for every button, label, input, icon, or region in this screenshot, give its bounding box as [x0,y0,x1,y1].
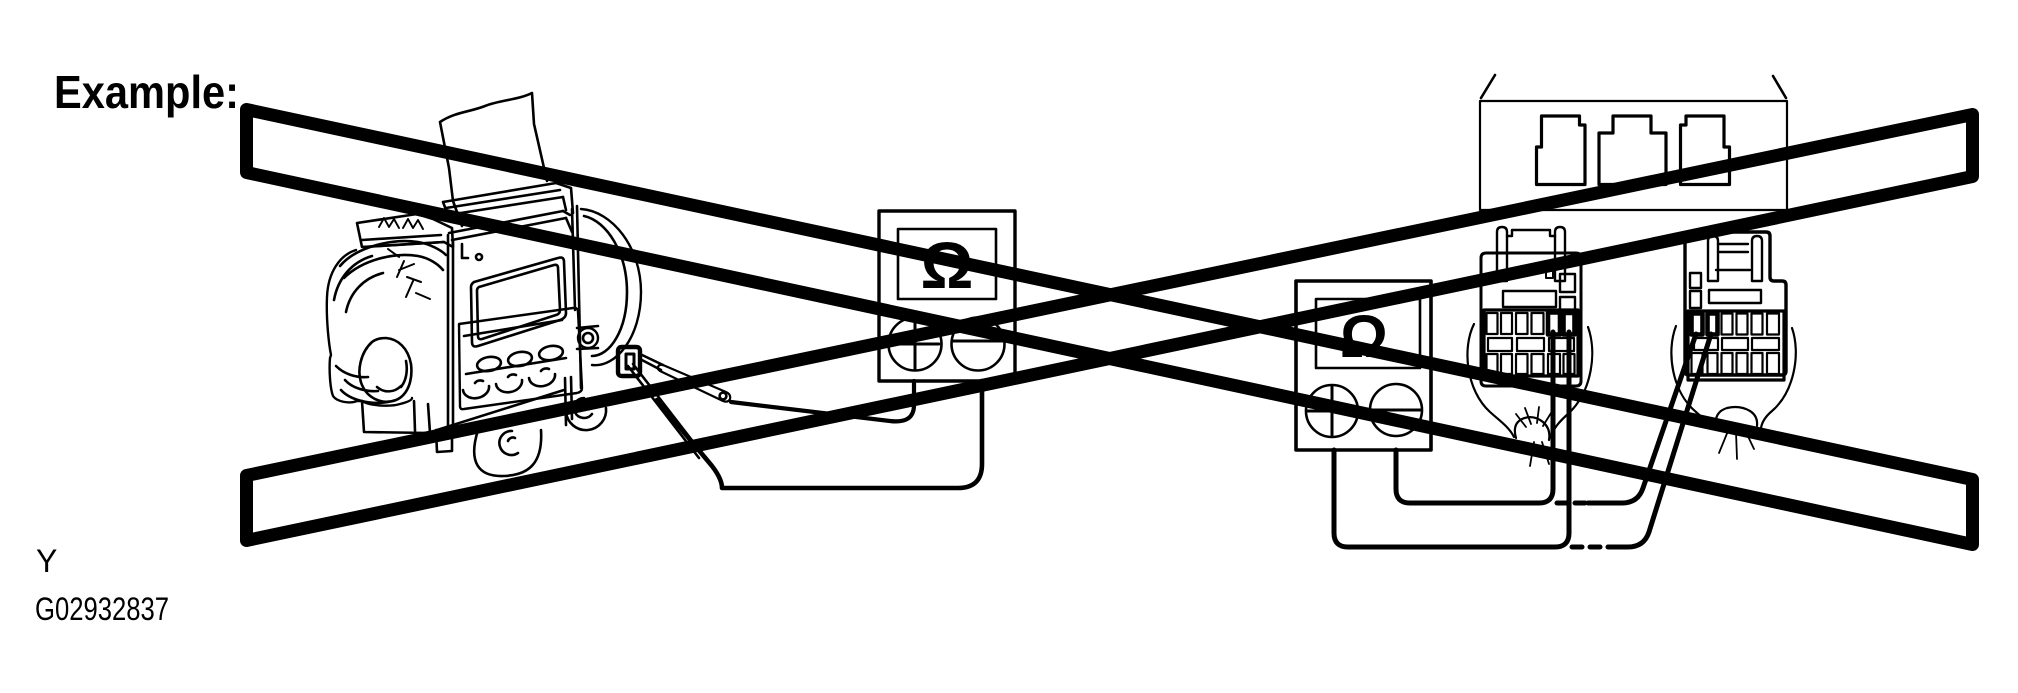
motor dome rim arc [344,255,443,278]
right foot circle [566,408,606,430]
probe 1 handle tip circle [720,393,727,400]
ohmmeter U1 positive terminal [889,318,942,371]
svg-text:G02932837: G02932837 [35,591,169,627]
motor dome outline [327,250,412,406]
dashed wire segment to connector B pin 2 [1557,501,1588,506]
connector B body [1685,232,1786,375]
connector B pin row 2 [1694,338,1718,350]
connector A pin row 2 [1488,338,1512,351]
foot blob curl [499,431,518,455]
body face right edge [572,206,581,388]
paper bottom hidden edge [453,201,462,226]
wire from U2 positive terminal to connector A pin 6 [1334,332,1569,547]
probe 1 handle [658,365,730,402]
ohmmeter U2 positive terminal [1306,385,1358,437]
cap zigzag mark [379,218,423,229]
connector A pin grid frame [1484,310,1578,376]
connector B side cell 1 [1690,273,1701,288]
connector B harness whiskers [1719,428,1764,459]
body face bottom edge [437,377,572,430]
connector A pin 5 (probed) [1548,313,1560,335]
ohmmeter U1 display window [898,229,996,299]
right foot curl [574,398,592,418]
connector B harness funnel right curve [1761,328,1796,428]
top mounting slab lines [443,183,563,215]
motor dome inner arc [346,273,383,312]
connector B harness funnel left curve [1671,326,1711,429]
connector B latch prong right [1752,236,1762,281]
connector A pin row 1 [1487,313,1498,334]
svg-text:Example:: Example: [54,66,239,118]
wire from probe 1 to ohmmeter U1 [731,381,914,421]
vent curl 2 [496,374,522,392]
connector A latch bridge [1507,230,1555,253]
connector A harness funnel right curve [1551,327,1592,438]
connector A small index square [1546,271,1553,278]
vent oval 1 [476,355,502,373]
face window outer [471,258,566,347]
connector B pin row 1 [1722,314,1733,335]
connector A side cell 1 [1560,274,1575,292]
ohmmeter U1 body [879,211,1015,381]
connector A side cell 2 [1560,297,1575,314]
ohmmeter U1 negative terminal [952,318,1005,371]
screw boss on right [578,328,598,348]
dome hatch marks [388,249,430,299]
connector A harness funnel left curve [1467,324,1514,437]
probe clip block inner [626,354,634,369]
vent oval 3 [538,344,564,362]
cap over motor [357,214,453,247]
wire rising to connector B pin 1 [1588,334,1696,503]
connector B latch prong left [1708,236,1718,281]
cap rim [362,235,444,247]
body face top edge [449,211,566,258]
lower vent panel [459,308,582,409]
vent oval 2 [507,350,533,368]
connector A harness boot [1515,417,1550,440]
motor lower bracket [362,401,430,433]
vent panel divider lines [464,320,566,374]
blower scroll outer ellipse [581,209,641,365]
ECU junction block outline [1480,101,1787,210]
probe 1 needle [640,354,663,370]
connector B side cell 2 [1690,291,1701,308]
slab right bracket [556,183,573,213]
upper beam rail [563,211,572,232]
ECU socket 3 [1681,116,1730,185]
connector A pin 6 (probed) [1564,313,1575,335]
connector A latch prong left [1497,227,1507,281]
wire from probe 2 to ohmmeter U1 [657,381,982,488]
paper tag [440,93,547,201]
ohmmeter U2 body [1296,281,1431,450]
wire from U2 negative terminal to connector A pin 5 [1396,332,1553,503]
ohmmeter U2 display window [1316,299,1420,368]
connector B pin grid frame [1688,311,1784,380]
probe 2 needle [628,364,701,458]
connector A body [1481,253,1581,386]
prohibition cross band 1 border [247,110,1973,545]
test probe clip block [618,347,640,376]
left foot arcs [341,380,388,403]
connector B key slot [1709,290,1761,303]
connector A latch prong right [1555,227,1565,281]
motor boss inner arcs [377,361,407,391]
blower scroll inner arc [584,216,627,356]
connector B latch bridge [1716,244,1750,270]
dashed wire segment to connector B pin 1 [1572,545,1616,550]
bottom tabs [436,429,452,452]
connector B pin 1 (probed) [1692,314,1703,335]
foot blob center [474,430,541,476]
prohibition cross band 2 border [247,115,1973,541]
connector A key slot [1503,291,1556,307]
ohmmeter U2 negative terminal [1370,384,1422,436]
connector A harness whiskers [1516,407,1551,466]
motor dome extra arcs [334,256,372,377]
connector B harness boot [1716,407,1757,426]
vent curl 1 [463,380,489,398]
ECU socket 1 [1537,116,1586,185]
connector A pin row 3 [1487,354,1498,374]
boss bracket [577,326,598,349]
ECU perspective tick left [1481,75,1495,98]
motor dome top arc [340,241,446,266]
wire rising to connector B pin 2 [1616,334,1711,547]
motor boss egg [359,338,411,402]
connector B pin 2 (probed) [1708,314,1718,335]
ECU socket 2 [1599,116,1666,185]
ECU perspective tick right [1773,76,1786,98]
connector B pin row 3 [1692,353,1703,374]
svg-text:Y: Y [36,543,57,579]
face window inner [477,265,560,339]
body front-left edge [448,235,453,430]
vent curl 3 [529,368,555,386]
face screw dot [476,254,482,260]
